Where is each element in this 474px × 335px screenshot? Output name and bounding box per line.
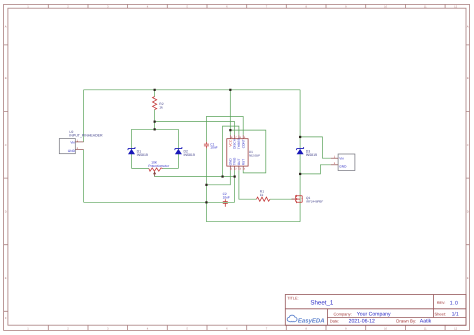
svg-text:C: C: [467, 144, 469, 147]
wire CONT hook to C1: [206, 117, 243, 142]
svg-text:1k: 1k: [260, 193, 264, 197]
wire diode box bottom left: [132, 167, 149, 169]
pin numbers top: [231, 136, 246, 139]
junction R2 bottom / DISCH node: [154, 121, 156, 123]
connector U2 INPUT_PINHEADER: [59, 130, 103, 154]
junction C1 vertical / GND pin wire: [205, 184, 207, 186]
potentiometer RP1: [148, 160, 170, 176]
svg-text:CONT: CONT: [241, 139, 245, 148]
svg-text:10: 10: [384, 328, 387, 331]
svg-text:IN5819: IN5819: [184, 153, 195, 157]
wire to U3 pin1: [300, 137, 331, 158]
wire pot wiper line: [155, 172, 235, 177]
wire R2 bottom to diode box: [154, 110, 156, 130]
wire R1 to Q1 gate: [270, 198, 295, 200]
junction D3 bottom / output GND node: [299, 173, 301, 175]
diode D1: [128, 147, 148, 157]
pin 6 THRES: [238, 135, 240, 139]
pin 2 TRIG: [234, 166, 236, 170]
pin 1 Vin: [75, 141, 83, 143]
wire diode box left: [131, 129, 133, 168]
junction R2 top on VCC rail: [154, 89, 156, 91]
row line 1: [285, 308, 466, 310]
wire U3 pin2 to D3 bottom node: [300, 165, 331, 174]
svg-text:Potentiometer: Potentiometer: [148, 164, 170, 168]
svg-text:10nF: 10nF: [223, 195, 230, 199]
svg-text:REV:: REV:: [437, 301, 445, 305]
row line 2: [327, 317, 466, 319]
svg-text:GND: GND: [339, 164, 347, 168]
svg-text:A: A: [5, 26, 7, 29]
pin names bottom row: [228, 157, 245, 165]
svg-text:INPUT_PINHEADER: INPUT_PINHEADER: [69, 134, 103, 138]
svg-text:E: E: [467, 277, 469, 280]
pin 1 GND: [229, 166, 231, 170]
diode D3: [297, 147, 317, 157]
pin 8 VCC: [229, 135, 231, 139]
wire ground rail: [84, 201, 235, 203]
svg-text:Aatik: Aatik: [420, 319, 432, 325]
svg-text:B: B: [467, 77, 469, 80]
wire D3 bottom to Q1 drain: [299, 154, 301, 221]
svg-text:NE555P: NE555P: [249, 153, 260, 157]
connector U3 output header: [331, 154, 355, 171]
svg-text:2021-06-12: 2021-06-12: [349, 319, 375, 325]
svg-text:Company:: Company:: [334, 311, 352, 316]
rev column divider: [433, 295, 435, 318]
svg-text:Sheet:: Sheet:: [435, 311, 447, 316]
svg-text:IN5819: IN5819: [137, 153, 148, 157]
svg-text:12: 12: [454, 6, 457, 9]
svg-text:GND: GND: [68, 149, 76, 153]
EasyEDA logo: [287, 315, 324, 324]
junction VCC / RST branch: [229, 129, 231, 131]
wire C1 bottom / ground drop: [205, 148, 207, 221]
resistor R1: [257, 190, 271, 202]
junction C1 vertical / ground rail: [205, 201, 207, 203]
wire RST to VCC hook: [230, 130, 265, 173]
svg-text:IN5819: IN5819: [306, 153, 317, 157]
junction D3 top / output Vin branch: [299, 136, 301, 138]
svg-text:Your Company: Your Company: [357, 312, 391, 318]
pin 2 GND: [331, 164, 338, 166]
logo cell divider: [326, 309, 328, 326]
wire U2 pin2 to ground rail: [83, 150, 85, 203]
svg-text:1k: 1k: [159, 105, 163, 109]
wire TRIG drop to C2: [234, 170, 236, 202]
svg-text:Vin: Vin: [339, 156, 344, 160]
svg-text:10: 10: [384, 6, 387, 9]
junction diode loop top: [154, 128, 156, 130]
svg-text:Drawn By:: Drawn By:: [396, 319, 416, 324]
pin 7 DISCH: [234, 135, 236, 139]
svg-text:EasyEDA: EasyEDA: [298, 317, 325, 324]
svg-text:IRF2448PBF: IRF2448PBF: [306, 199, 323, 203]
svg-text:B: B: [5, 77, 7, 80]
capacitor C1: [204, 142, 218, 150]
svg-text:D: D: [5, 210, 7, 213]
svg-text:D: D: [467, 210, 469, 213]
wire diode box bottom right: [163, 167, 179, 169]
pin 2 GND: [75, 149, 83, 151]
pin 1 Vin: [331, 157, 338, 159]
svg-text:11: 11: [424, 328, 427, 331]
svg-text:Sheet_1: Sheet_1: [310, 300, 333, 307]
svg-text:Date:: Date:: [330, 318, 340, 323]
svg-text:1/1: 1/1: [452, 311, 459, 317]
svg-text:C: C: [5, 144, 7, 147]
pin names top row: [228, 138, 245, 149]
diode D2: [175, 147, 195, 157]
wire diode box right: [177, 129, 179, 168]
svg-text:A: A: [467, 26, 469, 29]
wire bottom loop to Q1 source: [206, 221, 300, 223]
title block: [285, 295, 466, 326]
junction TRIG tee on wiper line: [234, 175, 236, 177]
svg-text:1.0: 1.0: [450, 301, 459, 307]
svg-text:10nF: 10nF: [210, 146, 217, 150]
transistor Q1 (IRF2448PBF MOSFET): [292, 195, 324, 203]
wire GND pin to C1 vertical: [206, 170, 230, 185]
wire left rail (top to pin1 of U2): [83, 90, 85, 142]
wire VCC drop: [229, 90, 231, 135]
wire THRES hook: [223, 126, 239, 176]
pin 4 RST: [242, 166, 244, 170]
wire DISCH line: [155, 122, 235, 135]
pin 5 CONT: [242, 135, 244, 139]
svg-text:E: E: [5, 277, 7, 280]
wire R2 top lead: [154, 90, 156, 97]
pin 3 OUT: [238, 166, 240, 170]
wire OUT to R1: [239, 170, 257, 199]
junction THRES tee on wiper line: [221, 175, 223, 177]
svg-text:RST: RST: [241, 159, 245, 165]
pin numbers bottom: [231, 168, 246, 171]
wire diode box top: [132, 128, 179, 130]
capacitor C2: [223, 192, 230, 207]
resistor R2: [153, 97, 164, 110]
svg-text:12: 12: [454, 328, 457, 331]
wire top rail: [84, 89, 301, 91]
svg-text:Vin: Vin: [70, 141, 75, 145]
junction U1 VCC drop on VCC rail: [229, 89, 231, 91]
op-amp U1 (NE555P timer): [227, 135, 260, 171]
svg-text:11: 11: [424, 6, 427, 9]
wire D3 branch top: [299, 90, 301, 149]
svg-text:TITLE:: TITLE:: [287, 297, 298, 301]
